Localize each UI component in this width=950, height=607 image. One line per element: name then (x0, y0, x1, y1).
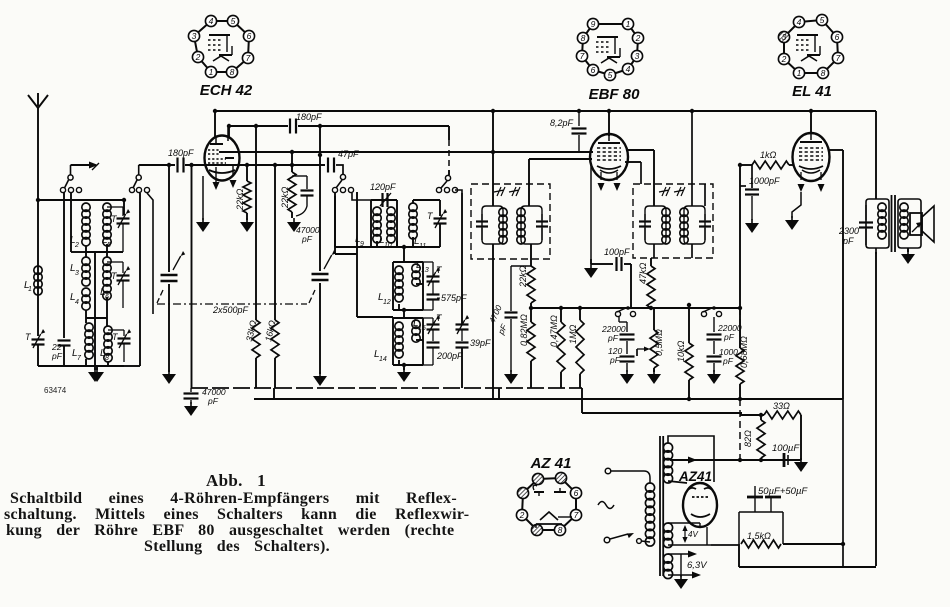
trimmer T (L15) (427, 323, 440, 325)
wire EBF80 anode to box2 (626, 149, 654, 151)
capacitor 120pF (padder, with trim arrow) (381, 193, 383, 207)
capacitor 47pF (327, 158, 329, 173)
svg-text:100pF: 100pF (604, 247, 630, 257)
bus B y=399 (254, 398, 843, 400)
wire y=152 (ECH42 anode to EBF80 grid) (219, 151, 292, 153)
svg-text:0,47MΩ: 0,47MΩ (549, 315, 559, 347)
contact arrow S1a (chassis) (71, 164, 91, 166)
svg-text:10kΩ: 10kΩ (676, 340, 686, 362)
svg-text:T: T (436, 265, 443, 275)
svg-text:pF: pF (723, 332, 735, 342)
resistor 1k (grid stopper) (740, 164, 752, 166)
svg-text:5: 5 (820, 15, 825, 25)
svg-text:7: 7 (836, 53, 841, 63)
resistor 0.68M (736, 348, 744, 384)
coil L1 (34, 266, 42, 274)
capacitor 22pF (63, 192, 65, 338)
resistor 0.47M (560, 308, 562, 322)
wire osc mid vertical (403, 247, 405, 262)
svg-text:7: 7 (246, 53, 251, 63)
svg-text:3: 3 (782, 32, 787, 42)
svg-text:6: 6 (835, 32, 840, 42)
tank 2a capacitor (644, 214, 646, 220)
loudspeaker (910, 213, 922, 235)
svg-text:7: 7 (580, 51, 585, 61)
svg-text:6: 6 (247, 31, 252, 41)
caption Abb. 1 (206, 471, 266, 491)
potentiometer 0.5M (volume) (653, 308, 655, 330)
svg-text:39pF: 39pF (470, 338, 491, 348)
wire grid line to 47pF (247, 164, 325, 166)
svg-text:8: 8 (105, 355, 109, 362)
output transformer primary (866, 199, 889, 248)
svg-text:22kΩ: 22kΩ (280, 186, 290, 209)
svg-text:AZ41: AZ41 (678, 469, 712, 484)
output transformer secondary (898, 199, 921, 248)
wire EL41 grid (789, 164, 793, 166)
resistor 22k (IF) (527, 266, 535, 303)
ground (gang A) (162, 374, 176, 384)
resistor R1 22k (246, 165, 248, 181)
mains switch (604, 537, 610, 543)
svg-text:3: 3 (75, 270, 79, 277)
svg-text:15: 15 (418, 325, 426, 332)
svg-text:7: 7 (574, 510, 579, 520)
IF tank L14/L15 (392, 318, 394, 365)
svg-text:5: 5 (231, 16, 236, 26)
svg-text:12: 12 (383, 299, 391, 306)
svg-text:7: 7 (77, 355, 82, 362)
svg-text:180pF: 180pF (296, 112, 322, 122)
wire mid coils (85, 310, 87, 323)
svg-text:T: T (436, 313, 443, 323)
tank 2b (684, 206, 705, 244)
resistor 1.5k + can (739, 512, 783, 544)
svg-text:6,3V: 6,3V (687, 560, 708, 571)
tube socket EBF80 (top view) (582, 24, 638, 75)
svg-text:4V: 4V (688, 530, 698, 539)
svg-text:2: 2 (195, 52, 201, 62)
svg-text:4: 4 (75, 299, 79, 306)
caption line 3 (6, 522, 454, 540)
capacitor 22000pF (right) (713, 317, 715, 332)
wire EBF80 g2 (625, 161, 641, 163)
svg-text:4: 4 (797, 17, 802, 27)
capacitor 575pF (427, 293, 440, 295)
coil L2 (82, 203, 90, 211)
wire rail x168 (gang cap rail) (168, 165, 170, 272)
svg-text:1kΩ: 1kΩ (760, 150, 777, 160)
svg-text:47kΩ: 47kΩ (638, 262, 648, 284)
tank 1a capacitor (481, 214, 483, 220)
svg-text:4: 4 (626, 64, 631, 74)
svg-text:8,2pF: 8,2pF (550, 118, 574, 128)
output pentode EL41 (793, 133, 830, 181)
wire S2a contact to tank (352, 193, 371, 200)
wire y=126 bus (229, 125, 288, 127)
wire rail x462 (461, 193, 463, 324)
wire EL41 anode top (810, 111, 812, 134)
tube socket EL41 (top view) (784, 20, 838, 73)
svg-text:1,5kΩ: 1,5kΩ (747, 531, 771, 541)
svg-text:2: 2 (74, 242, 79, 249)
svg-text:6: 6 (591, 65, 596, 75)
svg-text:1: 1 (28, 286, 32, 293)
wire HV to AZ41 anodes (668, 436, 714, 482)
svg-text:1000pF: 1000pF (749, 176, 780, 186)
antenna (37, 108, 39, 336)
wire grid rail x=740 (739, 165, 741, 348)
svg-text:33kΩ: 33kΩ (244, 319, 258, 342)
wire switch rails (63, 192, 65, 193)
trimmer T (L8) (108, 329, 124, 331)
trimmer T (antenna) (32, 338, 45, 340)
capacitor 2300pF (865, 205, 867, 220)
svg-text:3: 3 (635, 51, 640, 61)
wire S1b contact down (147, 193, 153, 314)
cathode arrows ECH42 (215, 167, 217, 180)
resistor R2 22k (291, 152, 293, 172)
switch S3b (reflex) (701, 311, 706, 316)
bus C y=413 (582, 412, 742, 414)
IF transformer 1 (dashed box) (471, 184, 550, 259)
wire contact rail x=71 (70, 193, 72, 252)
power transformer 4V winding (663, 523, 672, 532)
trimmer T (L6) (107, 261, 123, 263)
resistor 47k (650, 258, 652, 266)
capacitor 200pF (427, 341, 440, 343)
junction dots PSU (687, 397, 691, 401)
svg-text:13: 13 (421, 267, 429, 274)
wires into box2 (691, 111, 693, 206)
svg-text:0,82MΩ: 0,82MΩ (519, 314, 529, 346)
core marks box2 (659, 187, 670, 196)
capacitor 180pF (feedback) (289, 119, 291, 134)
wire corner x=449 down to switch S2b pivot (448, 126, 450, 140)
ground (heater) (680, 554, 682, 577)
capacitor 6.2pF (578, 111, 580, 126)
coil L3 (82, 257, 90, 265)
tank 1b (521, 206, 542, 244)
svg-text:2x500pF: 2x500pF (212, 305, 249, 315)
resistor 82 ohm (757, 420, 765, 458)
capacitor 100uF (electrolytic) (783, 453, 786, 467)
svg-text:2300: 2300 (838, 226, 859, 236)
coil L6 (103, 257, 111, 265)
svg-text:AZ 41: AZ 41 (530, 455, 572, 472)
svg-text:3: 3 (192, 31, 197, 41)
wire EL41 screen right (828, 149, 843, 151)
svg-text:33Ω: 33Ω (773, 401, 790, 411)
mains terminal upper (605, 468, 611, 474)
dash-dot gang coupling line (157, 290, 163, 303)
svg-text:0,5MΩ: 0,5MΩ (654, 329, 664, 356)
grid wire through ECH42 (185, 164, 247, 166)
svg-text:ECH 42: ECH 42 (200, 82, 253, 99)
svg-text:pF: pF (722, 356, 734, 366)
svg-text:T: T (427, 211, 434, 221)
svg-text:6: 6 (574, 488, 579, 498)
dashed rail x=740 (reflex feed) (739, 308, 741, 348)
svg-text:1MΩ: 1MΩ (568, 324, 578, 344)
wire top right down to output transformer (875, 111, 877, 199)
pentode EBF80 (590, 134, 628, 180)
svg-text:1: 1 (797, 68, 802, 78)
wire top bus y=111 (HT line) (215, 110, 876, 112)
wire EL41 cathode ground (792, 192, 801, 218)
band switch S2a (332, 187, 337, 192)
svg-text:EL 41: EL 41 (792, 83, 832, 100)
svg-text:8: 8 (821, 68, 826, 78)
wire transformer B+ (875, 248, 877, 254)
svg-text:pF: pF (607, 333, 619, 343)
svg-text:T: T (112, 332, 119, 342)
bus A y=388 (191, 387, 582, 389)
svg-text:16kΩ: 16kΩ (263, 319, 277, 342)
svg-text:47pF: 47pF (338, 149, 359, 159)
svg-text:22kΩ: 22kΩ (518, 265, 528, 288)
svg-text:pF: pF (609, 355, 621, 365)
cathode line y=460 (670, 459, 800, 461)
svg-text:82Ω: 82Ω (743, 430, 753, 447)
wire rail x320 + gang capacitor section B (319, 126, 321, 271)
coil L5 (103, 203, 111, 211)
tank 2b capacitor (704, 214, 706, 220)
figure number 63474 (44, 386, 66, 395)
wire ECH42 cathode to ground (202, 176, 204, 220)
svg-text:1: 1 (209, 67, 214, 77)
svg-text:4700: 4700 (487, 303, 504, 325)
ground (speaker) (907, 248, 909, 252)
band switch S2b (436, 187, 441, 192)
wire rail x256 + resistor 33k (255, 126, 257, 320)
capacitor 47000pF (cathode) (292, 175, 307, 177)
wire EBF80 top (608, 111, 610, 136)
svg-text:2: 2 (519, 510, 525, 520)
dashed feed x=740 lower (739, 399, 741, 460)
caption line 2 (4, 506, 469, 524)
IF tank L12/L13 (392, 262, 394, 310)
resistor 1M (579, 308, 581, 320)
tank L11 + trimmer (412, 200, 414, 203)
triode-hexode ECH42 (205, 136, 240, 181)
wire EBF80 cathode down (590, 163, 592, 259)
band switch S1b (129, 187, 134, 192)
tank 2a (645, 206, 666, 244)
tank 1a (482, 206, 503, 244)
svg-text:9: 9 (591, 19, 596, 29)
wires into box1 (492, 111, 494, 206)
power transformer core (659, 436, 661, 576)
coil L4 (82, 288, 90, 296)
capacitor 1000pF (EL41 grid) (740, 185, 746, 187)
capacitor 120pF (switch) (620, 355, 635, 357)
svg-text:0,68MΩ: 0,68MΩ (739, 336, 749, 368)
gang capacitor C gang1 (2x500pF section A) (161, 274, 178, 277)
ground (antenna section) (94, 366, 96, 370)
svg-text:120pF: 120pF (370, 182, 396, 192)
switch S3a (reflex) (615, 311, 620, 316)
wire switch S2a to lower tank (356, 192, 358, 317)
caption line 1 (10, 490, 457, 508)
svg-text:pF: pF (495, 322, 509, 337)
caption line 4 (144, 538, 330, 556)
tank 1b capacitor (541, 214, 543, 220)
wire L2/L5 bottom (85, 246, 87, 257)
coil L7 (85, 323, 93, 331)
resistor 0.82M (2) (530, 303, 532, 322)
ground (coil block) (85, 359, 87, 366)
capacitor 180pF (antenna coupling) (139, 164, 175, 166)
trimmer T (L13) (427, 275, 440, 277)
svg-text:575pF: 575pF (441, 293, 467, 303)
svg-text:8: 8 (230, 67, 235, 77)
trimmer T (L5) (107, 206, 123, 208)
antenna branch to coil block (38, 199, 124, 201)
svg-text:100µF: 100µF (772, 443, 800, 454)
wire ECH42 top to H-lines (214, 111, 216, 137)
heater arrows 6.3V (668, 553, 690, 555)
wire rail x275 + resistor 16k (274, 165, 276, 320)
svg-text:2: 2 (781, 54, 787, 64)
wire AVC rail x=191 (191, 165, 193, 388)
resistor 33 ohm (740, 414, 764, 416)
svg-text:pF: pF (301, 234, 313, 244)
svg-text:8: 8 (558, 525, 563, 535)
capacitor 4700pF (510, 266, 512, 311)
band switch S1a (60, 187, 65, 192)
svg-text:pF: pF (207, 396, 219, 406)
coil L8 (104, 326, 112, 334)
svg-text:T: T (25, 332, 32, 342)
wire rail x140 (139, 193, 141, 366)
wire L bottom join (38, 365, 64, 367)
power transformer HV secondary (663, 443, 672, 452)
wire osc tank bottom bus (334, 196, 336, 247)
svg-text:14: 14 (379, 356, 387, 363)
cathode arrows EL41 (800, 172, 802, 180)
oscillator tank L9/L10 (370, 200, 372, 247)
wire tank E bottom + ground (393, 364, 423, 366)
svg-text:200pF: 200pF (436, 351, 463, 361)
svg-text:1: 1 (626, 19, 631, 29)
core marks box1 (494, 187, 505, 196)
resistor 10k (688, 308, 690, 343)
svg-text:2: 2 (635, 33, 641, 43)
rectifier AZ41 (683, 483, 717, 527)
cathode arrows EBF80 (600, 172, 602, 180)
svg-text:EBF 80: EBF 80 (589, 86, 641, 103)
wire AZ41 filament (699, 523, 701, 526)
tube socket AZ41 (top view) (522, 478, 576, 530)
wire tank D bottom (393, 309, 423, 311)
bus y=305 (531, 307, 740, 309)
power transformer 6.3V winding (663, 554, 672, 563)
wire antenna to ground bus (38, 365, 95, 367)
mains ~ symbol (598, 502, 614, 509)
svg-text:8: 8 (581, 33, 586, 43)
svg-text:22kΩ: 22kΩ (235, 188, 245, 211)
trimmer + capacitor 39pF column (456, 323, 469, 325)
svg-text:50µF+50µF: 50µF+50µF (758, 486, 808, 497)
tube socket ECH42 (top view) (194, 21, 249, 72)
power transformer primary (611, 471, 650, 483)
svg-text:4: 4 (209, 16, 214, 26)
capacitor 22000pF (switch) (618, 317, 620, 322)
output transformer core (891, 195, 893, 252)
svg-text:5: 5 (608, 70, 613, 80)
ground + capacitor 100pF (cathode) (590, 259, 592, 264)
capacitor 1000pF (right) (707, 355, 722, 357)
wires PSU bottom (738, 544, 740, 567)
svg-text:pF: pF (51, 351, 63, 361)
svg-text:180pF: 180pF (168, 148, 194, 158)
capacitor 47000pF (bus) (190, 388, 192, 392)
IF transformer 2 (dashed box) (633, 184, 713, 258)
svg-text:pF: pF (842, 236, 854, 246)
